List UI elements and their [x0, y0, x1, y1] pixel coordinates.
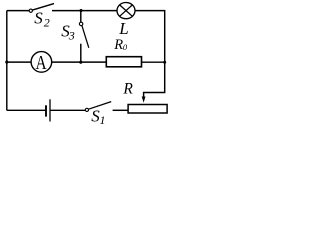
svg-text:L: L — [118, 19, 128, 38]
svg-text:A: A — [35, 51, 46, 74]
svg-text:3: 3 — [68, 29, 75, 43]
svg-text:S: S — [34, 8, 43, 27]
svg-text:R: R — [113, 37, 123, 53]
svg-text:0: 0 — [123, 42, 128, 52]
svg-text:2: 2 — [44, 16, 50, 30]
svg-text:R: R — [122, 80, 133, 97]
svg-text:1: 1 — [100, 113, 106, 127]
